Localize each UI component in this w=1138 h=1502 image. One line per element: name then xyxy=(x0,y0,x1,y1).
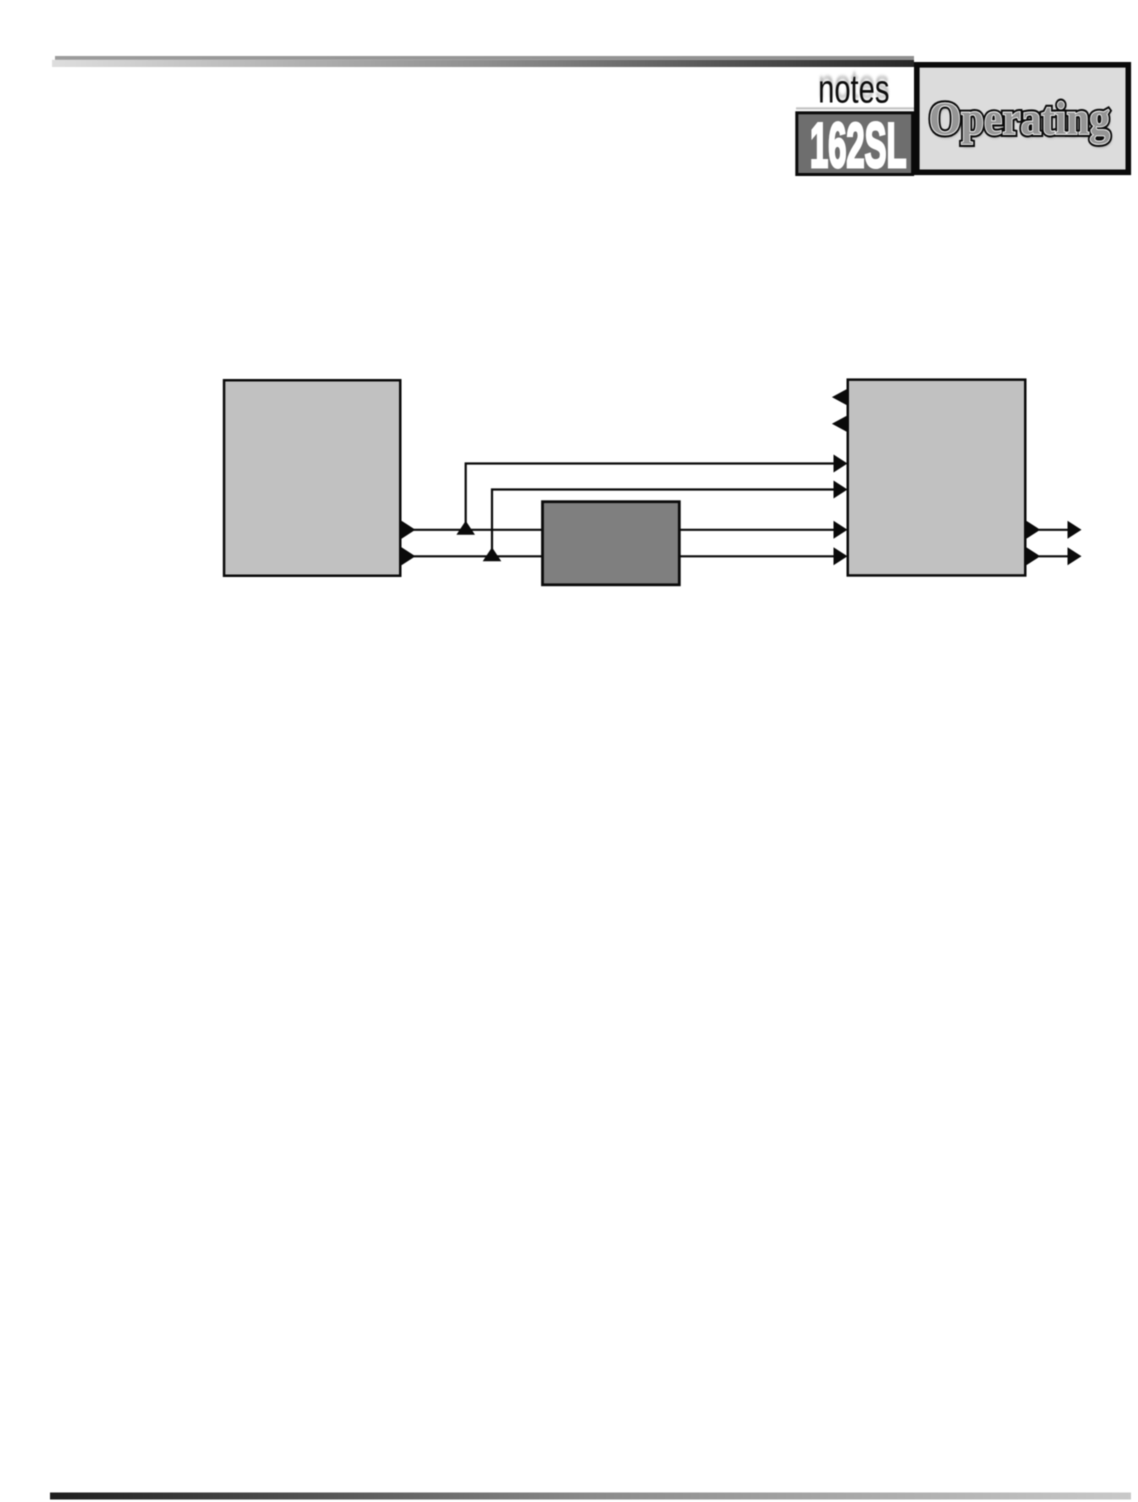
svg-text:Operating: Operating xyxy=(929,93,1110,145)
svg-text:notes: notes xyxy=(818,67,889,112)
svg-text:162SL: 162SL xyxy=(810,111,907,181)
